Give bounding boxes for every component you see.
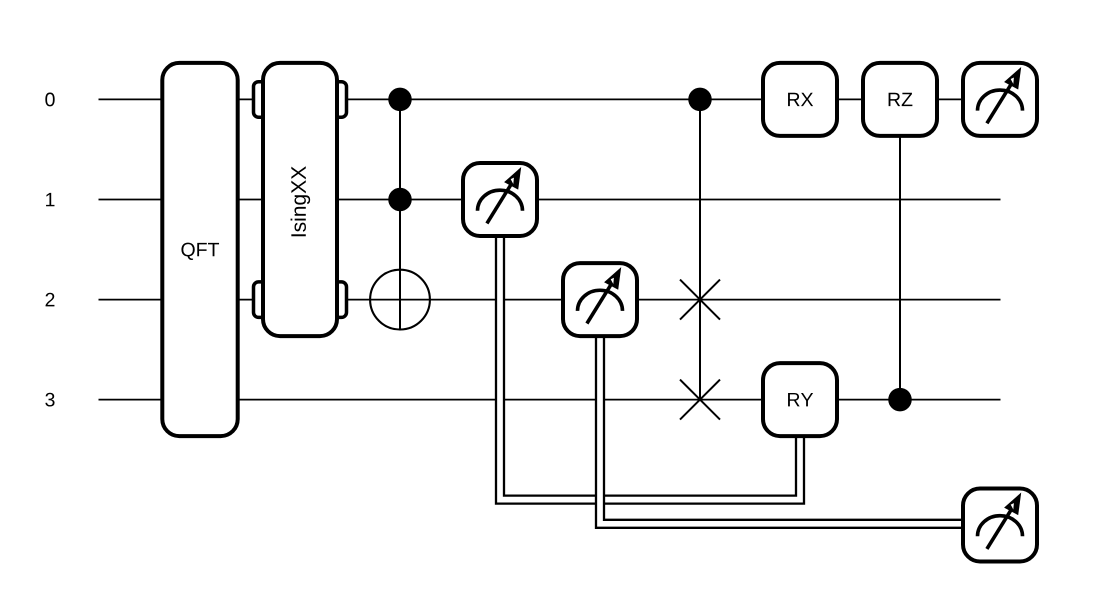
measurement M1 wire 1: [463, 163, 537, 236]
gate RY wire 3: [763, 363, 837, 436]
Toffoli target wire 2: [370, 270, 430, 330]
measurement wire 0 terminal: [963, 63, 1037, 136]
IsingXX notch left wire 2: [254, 282, 272, 318]
measurement classical terminal: [963, 489, 1037, 562]
wire qubit 1: [99, 199, 1001, 201]
classical wire from M1 to RY: [500, 237, 800, 499]
control line CRZ: [899, 99, 901, 399]
classical wire from M2 to final measure: [600, 338, 962, 524]
IsingXX notch right wire 2: [329, 282, 347, 318]
wire label 1: [46, 193, 54, 206]
wire qubit 0: [99, 98, 1001, 100]
gate QFT wires 0-3: [162, 63, 237, 436]
wire qubit 3: [99, 399, 1001, 401]
wire label 2: [46, 293, 55, 307]
Toffoli control dot wire 0: [388, 88, 412, 112]
control line Toffoli: [399, 99, 401, 330]
Toffoli control dot wire 1: [388, 188, 412, 212]
measurement M2 wire 2: [563, 263, 637, 336]
gate RZ wire 0: [863, 63, 937, 136]
CSWAP X wire 2: [680, 280, 720, 320]
wire label 0: [45, 93, 54, 107]
CRZ control dot wire 3: [888, 388, 912, 412]
wire qubit 2: [99, 299, 1001, 301]
IsingXX notch left wire 0: [254, 82, 272, 118]
IsingXX notch right wire 0: [329, 82, 347, 118]
CSWAP X wire 3: [680, 380, 720, 420]
gate RX wire 0: [763, 63, 837, 136]
CSWAP control dot wire 0: [688, 88, 712, 112]
gate IsingXX wires 0,2: [263, 63, 337, 336]
control line CSWAP: [699, 99, 701, 399]
wire label 3: [45, 393, 54, 407]
